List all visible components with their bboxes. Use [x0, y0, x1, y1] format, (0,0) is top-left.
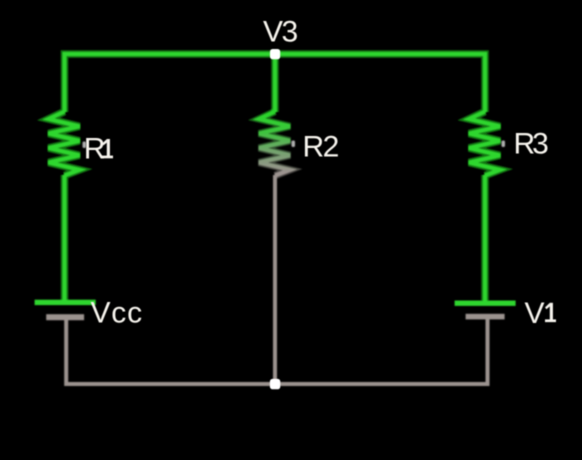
- bottom junction dot: [270, 379, 280, 389]
- wire top loop glow: [65, 54, 486, 112]
- resistor R2 under glow: [259, 112, 290, 176]
- wire R3 to V1 plus: [483, 175, 487, 301]
- svg-text:R: R: [84, 133, 106, 166]
- resistor R1 glow: [49, 112, 80, 176]
- resistor R3 glow: [469, 112, 500, 176]
- svg-text:V3: V3: [263, 16, 298, 49]
- wire R1 to Vcc plus: [62, 175, 66, 301]
- svg-text:R2: R2: [303, 131, 339, 164]
- wire R2 to bottom junction: [273, 175, 277, 384]
- wire R3-V1 glow: [481, 175, 489, 301]
- R3 highlight tick: [502, 141, 506, 148]
- wire middle branch from node V3 down to R2: [273, 54, 277, 112]
- battery V1 positive plate: [455, 301, 516, 306]
- battery Vcc positive plate: [35, 300, 96, 305]
- wire top loop: node V3 rail from left corner to right corner: [65, 54, 486, 112]
- svg-text:V: V: [525, 297, 545, 330]
- R1 highlight tick: [83, 142, 87, 149]
- battery Vcc negative plate: [46, 314, 84, 320]
- resistor R2: [259, 112, 290, 176]
- svg-text:Vcc: Vcc: [91, 297, 143, 330]
- resistor R1: [49, 112, 80, 176]
- R2 highlight tick: [292, 141, 296, 148]
- resistor R3: [469, 112, 500, 176]
- svg-text:R3: R3: [514, 128, 549, 161]
- node V3 junction dot: [270, 49, 280, 59]
- battery V1 negative plate: [466, 314, 505, 320]
- wire middle branch glow: [271, 54, 279, 112]
- green wire under-glow layer: [49, 54, 501, 301]
- wire R1-Vcc glow: [61, 175, 69, 301]
- wire Vcc minus to bottom rail: [66, 317, 275, 384]
- wire bottom rail junction to V1 minus: [275, 317, 488, 384]
